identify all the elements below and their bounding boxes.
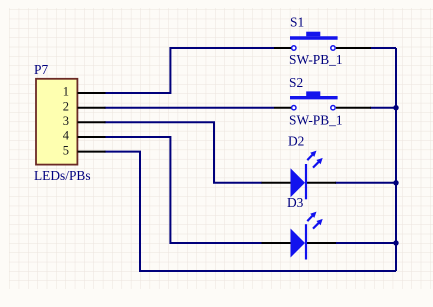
junction at D2/bus (393, 180, 398, 185)
D2 cathode pin (307, 182, 336, 184)
svg-text:5: 5 (63, 143, 69, 157)
pin 2 (78, 107, 106, 109)
S2 left pin (274, 107, 291, 109)
pin 5 (78, 151, 106, 153)
D2 anode pin (262, 182, 291, 184)
S1 right pin (336, 47, 371, 49)
svg-text:S1: S1 (290, 15, 304, 30)
S2 left contact circle (292, 106, 296, 110)
connector P7 (34, 62, 106, 183)
S1 actuator bar (290, 36, 338, 39)
pin 3 (78, 121, 106, 123)
wire pin4 to D3 (105, 137, 263, 243)
S2 right contact circle (331, 106, 335, 110)
LED D3 (262, 195, 337, 260)
wire pin3 to D2 (105, 122, 263, 183)
D3 emission arrow 1 (307, 212, 316, 222)
D3 anode pin (262, 242, 291, 244)
wire pin2 to S2 (105, 107, 275, 109)
svg-text:3: 3 (63, 114, 69, 128)
D3 cathode pin (307, 242, 336, 244)
svg-text:SW-PB_1: SW-PB_1 (289, 52, 343, 67)
pin 1 (78, 92, 106, 94)
svg-text:4: 4 (63, 129, 70, 143)
svg-text:P7: P7 (34, 62, 48, 77)
P7 body (36, 79, 77, 165)
S1 left contact circle (292, 46, 296, 50)
wire S1 right to bus (370, 47, 396, 49)
LED D2 (262, 134, 337, 200)
svg-text:S2: S2 (289, 75, 303, 90)
svg-text:D2: D2 (288, 134, 304, 149)
wire S2 right to bus (370, 107, 396, 109)
S1 left pin (274, 47, 291, 49)
junction at S2/bus (393, 105, 398, 110)
D2 emission arrow 1 (307, 151, 316, 161)
S1 right contact circle (331, 46, 335, 50)
svg-text:D3: D3 (287, 195, 304, 210)
D3 cathode bar (305, 224, 307, 259)
D2 emission arrow 2 (313, 158, 323, 168)
wire pin5 to bottom bus (105, 152, 397, 271)
wire D3 right to bus (335, 242, 396, 244)
S2 actuator bump (306, 91, 320, 96)
D2 triangle (291, 168, 306, 197)
svg-text:1: 1 (63, 85, 69, 99)
S2 actuator bar (290, 96, 338, 99)
junction at D3/bus (393, 240, 398, 245)
svg-text:SW-PB_1: SW-PB_1 (289, 112, 343, 127)
switch S1 (274, 15, 371, 67)
wire pin1 to S1 (105, 48, 275, 93)
svg-text:LEDs/PBs: LEDs/PBs (34, 168, 91, 183)
right bus wire (395, 48, 397, 271)
svg-text:2: 2 (63, 99, 69, 113)
D3 emission arrow 2 (313, 219, 323, 229)
D3 triangle (291, 229, 306, 258)
D2 cathode bar (305, 164, 307, 199)
S2 right pin (336, 107, 371, 109)
S1 actuator bump (306, 32, 320, 37)
wire D2 right to bus (335, 182, 396, 184)
pin 4 (78, 136, 106, 138)
switch S2 (274, 75, 371, 127)
